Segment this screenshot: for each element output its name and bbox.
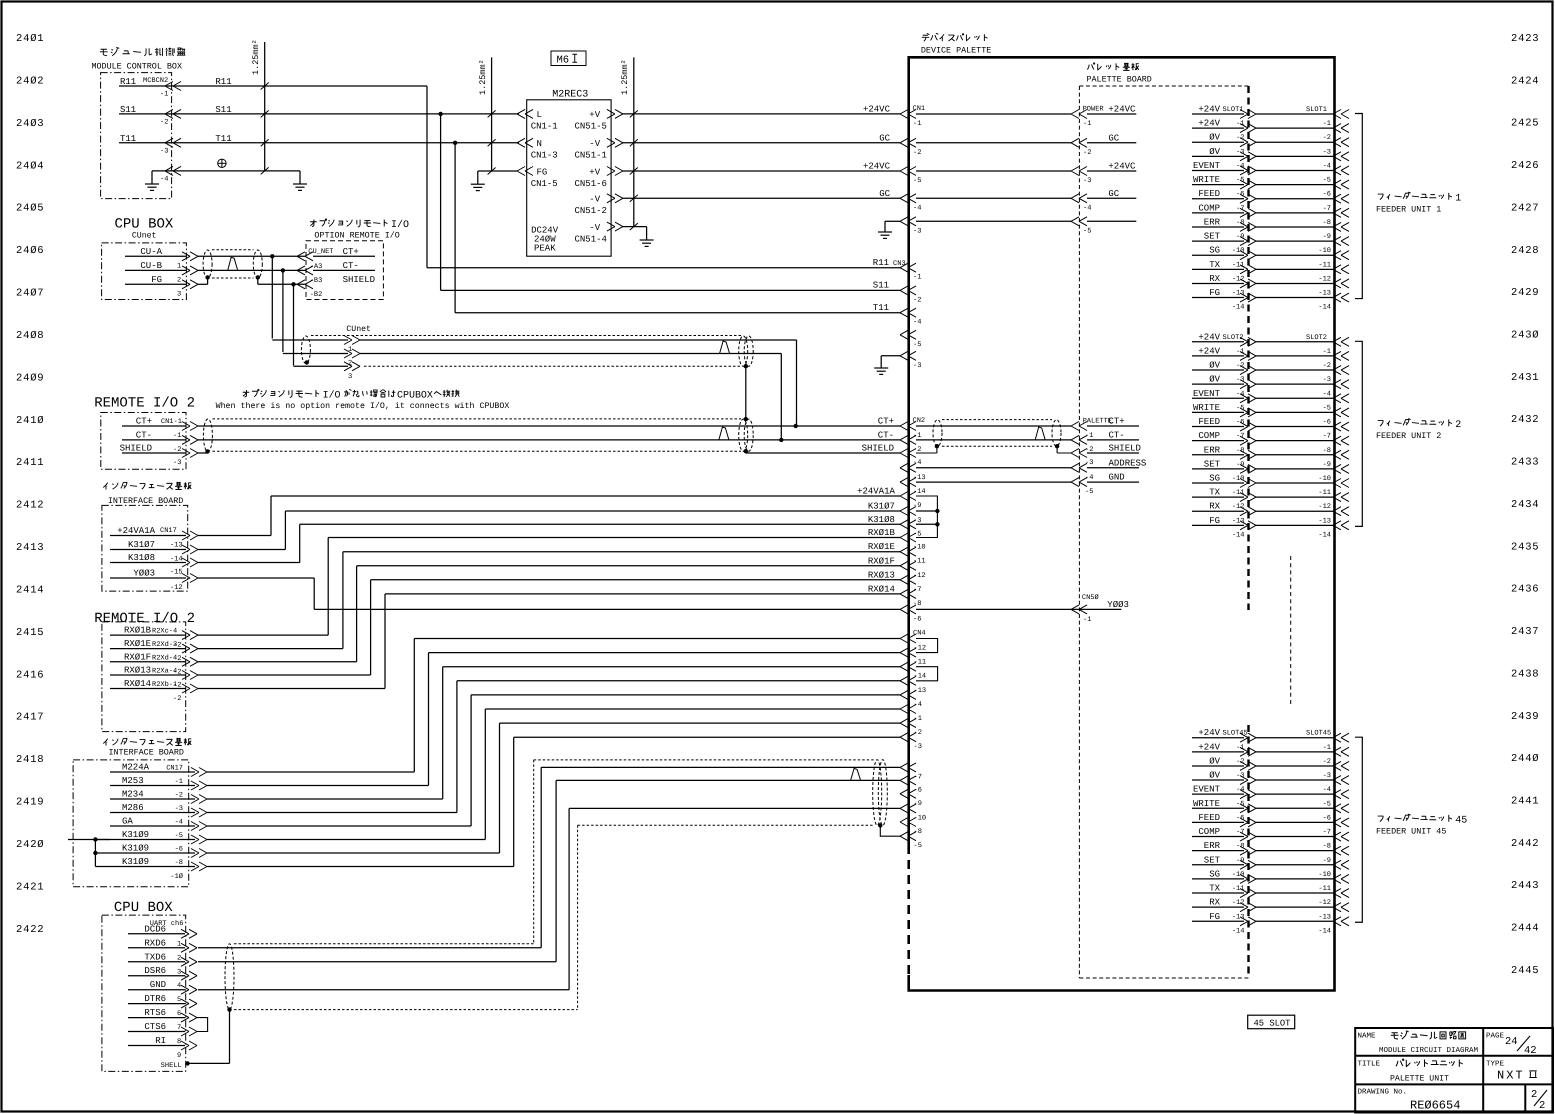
svg-text:SHIELD: SHIELD [1109, 444, 1141, 454]
svg-text:-11: -11 [1318, 261, 1331, 269]
svg-text:L: L [537, 110, 542, 120]
svg-text:INTERFACE BOARD: INTERFACE BOARD [109, 747, 184, 757]
svg-text:-5: -5 [913, 341, 921, 349]
svg-text:24Ø2: 24Ø2 [16, 75, 44, 87]
svg-text:-5: -5 [1323, 177, 1331, 185]
svg-text:RXØ1B: RXØ1B [124, 626, 152, 636]
svg-text:-2: -2 [913, 149, 921, 157]
svg-text:SG: SG [1209, 246, 1220, 256]
remote cable shield oval left [203, 419, 212, 452]
svg-text:-1: -1 [913, 432, 921, 440]
svg-text:2424: 2424 [1511, 75, 1539, 87]
wire shield to CN4-5 [880, 825, 900, 836]
svg-text:-3: -3 [914, 743, 922, 751]
svg-text:CU-A: CU-A [140, 247, 162, 257]
svg-text:24: 24 [1505, 1036, 1518, 1048]
connector SLOT2 right chevrons and pins [1306, 334, 1349, 540]
wire K3108 from board [110, 562, 186, 564]
svg-text:-4: -4 [1323, 390, 1331, 398]
svg-text:K31Ø9: K31Ø9 [122, 857, 149, 867]
svg-text:-1: -1 [914, 715, 922, 723]
feeder unit label SLOT45 [1378, 816, 1383, 822]
svg-text:TYPE: TYPE [1486, 1061, 1505, 1069]
uart cable sheath dotted inner [234, 1009, 578, 1011]
svg-text:-6: -6 [1323, 191, 1331, 199]
svg-text:+24V: +24V [1198, 346, 1220, 356]
ground at module control box right [299, 171, 301, 184]
svg-text:R2Xc-4: R2Xc-4 [152, 628, 177, 636]
svg-text:YØØ3: YØØ3 [1107, 600, 1129, 610]
svg-text:-11: -11 [1318, 885, 1331, 893]
svg-text:-2: -2 [1323, 134, 1331, 142]
svg-text:FG: FG [1209, 912, 1220, 922]
wire K31Ø9 vertical and to CN4 [513, 737, 515, 866]
svg-text:-11: -11 [1232, 489, 1245, 497]
45 SLOT label box [1248, 1015, 1295, 1028]
svg-text:SHIELD: SHIELD [343, 275, 375, 285]
CPU BOX CUnet pins [140, 247, 181, 298]
svg-text:3: 3 [177, 290, 181, 298]
svg-text:-3: -3 [175, 805, 183, 813]
wire GA vertical and to CN4 [470, 695, 472, 826]
connector CN3 labels [893, 260, 921, 370]
wire CT- to CN2-2 [198, 439, 900, 441]
backplane connector dashed line lower [1247, 725, 1249, 978]
wire M224A from board [110, 771, 195, 773]
svg-text:-11: -11 [914, 659, 927, 667]
feeder unit bracket SLOT45 [1355, 737, 1362, 922]
svg-text:244Ø: 244Ø [1511, 753, 1539, 765]
wire RXD6 to CN4-7 [198, 947, 541, 949]
interface board lower box [73, 760, 189, 887]
M2REC3 right pin +V CN51-5 [607, 109, 623, 118]
CUnet2 connector [344, 336, 360, 382]
svg-text:GND: GND [150, 980, 166, 990]
svg-text:K31Ø7: K31Ø7 [868, 502, 895, 512]
svg-text:24Ø9: 24Ø9 [16, 372, 44, 384]
cable spec 1.25mm2 line left of M2REC3 [491, 57, 493, 171]
wire M253 from board [110, 785, 195, 787]
svg-text:-14: -14 [1232, 927, 1245, 935]
svg-text:GND: GND [1109, 473, 1125, 483]
junction SHIELD drop [291, 282, 295, 286]
svg-text:-9: -9 [1323, 857, 1331, 865]
svg-text:2422: 2422 [16, 924, 44, 936]
svg-text:-11: -11 [1232, 885, 1245, 893]
svg-text:-7: -7 [1323, 433, 1331, 441]
shield vertical from CUnet2 cable to lower cable [745, 366, 747, 419]
svg-text:2415: 2415 [16, 627, 44, 639]
svg-text:-5: -5 [1085, 488, 1093, 496]
svg-text:DEVICE PALETTE: DEVICE PALETTE [921, 46, 991, 56]
svg-text:-10: -10 [1318, 247, 1331, 255]
junction CT+ drop [270, 254, 274, 258]
wire RXØ14 from board [110, 688, 186, 690]
svg-text:-2: -2 [1323, 362, 1331, 370]
uart cable shield ovals right [873, 760, 882, 826]
svg-text:-1Ø: -1Ø [170, 873, 183, 881]
svg-text:+24V: +24V [1198, 119, 1220, 129]
svg-text:-3: -3 [173, 459, 181, 467]
svg-text:RXØ14: RXØ14 [124, 679, 151, 689]
svg-text:CT+: CT+ [878, 417, 894, 427]
svg-text:8: 8 [177, 1038, 181, 1046]
svg-text:+24V: +24V [1198, 728, 1220, 738]
svg-text:RTS6: RTS6 [144, 1008, 166, 1018]
svg-text:SLOT45: SLOT45 [1223, 730, 1248, 738]
svg-text:2445: 2445 [1511, 965, 1539, 977]
svg-text:2426: 2426 [1511, 160, 1539, 172]
svg-text:-B2: -B2 [310, 291, 323, 299]
svg-text:COMP: COMP [1198, 827, 1220, 837]
svg-text:-1: -1 [1083, 120, 1091, 128]
svg-text:-14: -14 [1232, 304, 1245, 312]
svg-text:CN1-5: CN1-5 [531, 179, 558, 189]
svg-text:PAGE: PAGE [1486, 1032, 1505, 1041]
wire CN2-14 to PALETTE GND [916, 481, 1071, 483]
palette POWER stub wires and labels [1087, 105, 1136, 222]
svg-text:-7: -7 [1323, 205, 1331, 213]
wire T11 inside box [119, 142, 167, 144]
svg-text:2437: 2437 [1511, 626, 1539, 638]
svg-text:2432: 2432 [1511, 414, 1539, 426]
connector SLOT45 left stubs and labels [1192, 728, 1248, 935]
connector CN4 lower chevrons and pins [900, 763, 926, 850]
wire CUnet2-2 to vertical drop to CT- [360, 353, 781, 355]
svg-text:-12: -12 [170, 584, 183, 592]
connector SLOT2 crossing wires [1256, 342, 1333, 526]
svg-text:FG: FG [1209, 516, 1220, 526]
wire RXØ1B from board [110, 634, 186, 636]
svg-text:-15: -15 [170, 569, 183, 577]
svg-text:2436: 2436 [1511, 584, 1539, 596]
wire CU-B [125, 269, 186, 271]
svg-text:-5: -5 [1323, 800, 1331, 808]
svg-text:-5: -5 [913, 177, 921, 185]
svg-text:-2: -2 [914, 729, 922, 737]
svg-text:-13: -13 [1318, 913, 1331, 921]
svg-text:CN1-1: CN1-1 [531, 122, 558, 132]
CUnet cable shield ovals [203, 250, 212, 278]
palette PALETTE stub wires and labels [1087, 417, 1146, 483]
wire R11 vertical down to CN3 [426, 86, 428, 268]
svg-text:CPUBOX: CPUBOX [397, 389, 433, 400]
svg-text:2419: 2419 [16, 797, 44, 809]
svg-text:GC: GC [1108, 133, 1119, 143]
svg-text:INTERFACE BOARD: INTERFACE BOARD [108, 496, 183, 506]
svg-text:45 SLOT: 45 SLOT [1254, 1019, 1291, 1029]
svg-text:DCD6: DCD6 [144, 924, 166, 934]
wire M286 from board [110, 812, 195, 814]
svg-text:-4: -4 [1323, 786, 1331, 794]
svg-text:2434: 2434 [1511, 499, 1539, 511]
interface board lower pins [122, 763, 183, 882]
svg-text:-10: -10 [1318, 871, 1331, 879]
CN2-PALETTE cable shield right [1052, 420, 1061, 446]
connector SLOT1 crossing wires [1256, 114, 1333, 298]
svg-text:2442: 2442 [1511, 838, 1539, 850]
connector CN50 on palette board [1071, 594, 1129, 624]
connector CU_NET pins [308, 247, 375, 299]
svg-text:+24VC: +24VC [1108, 162, 1136, 172]
svg-text:-5: -5 [914, 842, 922, 850]
svg-text:2443: 2443 [1511, 880, 1539, 892]
svg-text:-11: -11 [1232, 261, 1245, 269]
svg-text:-6: -6 [914, 786, 922, 794]
svg-text:SHIELD: SHIELD [862, 444, 894, 454]
svg-text:1.25mm²: 1.25mm² [478, 59, 488, 95]
remote cable shield ovals right [739, 419, 748, 451]
svg-text:M224A: M224A [122, 763, 150, 773]
svg-text:45: 45 [1455, 816, 1467, 827]
svg-text:FEED: FEED [1198, 813, 1220, 823]
wire +24VC CN51-6 to CN1-5 [622, 170, 900, 172]
svg-text:-3: -3 [160, 148, 168, 156]
svg-text:FG: FG [151, 275, 162, 285]
wire Y003 vertical down and to CN50 [313, 578, 315, 609]
svg-text:+V: +V [589, 110, 600, 120]
svg-text:K31Ø9: K31Ø9 [122, 830, 149, 840]
wire K3108 vertical and to CN2 [299, 524, 301, 562]
svg-text:-6: -6 [913, 615, 921, 623]
earth symbol circle [218, 159, 226, 167]
svg-text:ERR: ERR [1204, 217, 1221, 227]
svg-text:-V: -V [589, 139, 600, 149]
wire TXD6 to CN4-6 [198, 961, 556, 963]
svg-text:-8: -8 [1323, 447, 1331, 455]
feeder unit bracket SLOT1 [1355, 114, 1362, 299]
svg-text:-14: -14 [1232, 531, 1245, 539]
device palette title [922, 33, 930, 41]
connector SLOT45 crossing wires [1256, 738, 1333, 922]
svg-text:242Ø: 242Ø [16, 839, 44, 851]
uart cable shield oval [225, 944, 234, 1010]
svg-text:-10: -10 [1232, 475, 1245, 483]
remote io2 lower pins [124, 626, 181, 703]
M2REC3 right pin -V CN51-4 [607, 222, 623, 231]
svg-text:TITLE: TITLE [1358, 1061, 1381, 1069]
wire RXØ1B vertical and to CN2 [327, 538, 329, 636]
svg-text:COMP: COMP [1198, 431, 1220, 441]
svg-text:+24V: +24V [1198, 105, 1220, 115]
wire CT- from remote box [122, 439, 186, 441]
svg-text:1: 1 [1455, 194, 1461, 205]
wire CN3-3 shield stub with ground [881, 355, 900, 357]
interface board upper pins [117, 526, 182, 592]
svg-text:-8: -8 [1323, 219, 1331, 227]
svg-text:24Ø3: 24Ø3 [16, 118, 44, 130]
wire CT+ to CN2-1 [198, 425, 900, 427]
wire K31Ø9 from board [95, 866, 195, 868]
wire option CT+ vertical [271, 256, 273, 338]
M2REC3 left pin L CN1-1 [517, 109, 533, 118]
palette board title [1087, 63, 1094, 70]
svg-text:NXT: NXT [1497, 1069, 1525, 1083]
uart pins [144, 924, 181, 1070]
svg-text:WRITE: WRITE [1193, 175, 1220, 185]
svg-text:-13: -13 [1232, 913, 1245, 921]
svg-text:2413: 2413 [16, 542, 44, 554]
svg-text:-10: -10 [913, 544, 926, 552]
svg-text:42: 42 [1524, 1045, 1537, 1057]
wire option CT- vertical [282, 270, 284, 352]
svg-text:24Ø7: 24Ø7 [16, 288, 44, 300]
svg-text:FG: FG [1209, 288, 1220, 298]
CN2-PALETTE cable sheath [942, 419, 1052, 421]
svg-text:CN1-3: CN1-3 [531, 151, 558, 161]
wire K31Ø9 from board [96, 839, 195, 841]
svg-text:DTR6: DTR6 [144, 994, 166, 1004]
svg-text:-12: -12 [1232, 275, 1245, 283]
svg-text:-3: -3 [913, 227, 921, 235]
wire SHIELD from cable to CN2-4 [745, 451, 747, 453]
wire M286 vertical and to CN4 [456, 681, 458, 813]
wire +24VC CN51-5 to CN1-1 [622, 113, 900, 115]
svg-text:24Ø1: 24Ø1 [16, 33, 44, 45]
M2REC3 right pin -V CN51-2 [607, 194, 623, 203]
svg-text:RXØ13: RXØ13 [124, 666, 151, 676]
svg-text:DSR6: DSR6 [144, 966, 166, 976]
svg-text:TX: TX [1209, 260, 1220, 270]
wire FG to cable shield [125, 283, 186, 285]
svg-text:241Ø: 241Ø [16, 415, 44, 427]
wire RXØ13 vertical and to CN2 [370, 580, 372, 675]
svg-text:SHELL: SHELL [161, 1062, 182, 1070]
twisted pair hump CUnet2 [720, 341, 730, 354]
wire CT+ option stub [313, 255, 375, 257]
uart cable sheath dotted outer [234, 943, 534, 945]
cable spec 1.25mm2 line right of M2REC3 [633, 57, 635, 226]
option remote io box outline [306, 241, 383, 300]
svg-text:PALETTE BOARD: PALETTE BOARD [1087, 75, 1152, 85]
twisted pair hump CU [228, 257, 238, 270]
svg-text:PEAK: PEAK [534, 244, 556, 254]
CUnet2 cable sheath dashes [311, 335, 741, 337]
svg-text:-4: -4 [175, 819, 183, 827]
svg-text:FEED: FEED [1198, 189, 1220, 199]
svg-text:I/O: I/O [323, 389, 341, 400]
wire K31Ø9 vertical and to CN4 [499, 723, 501, 853]
svg-text:CUnet: CUnet [132, 232, 157, 241]
svg-text:-1: -1 [173, 432, 181, 440]
CN2-PALETTE cable CT- [916, 439, 1071, 441]
twisted pair hump remote cable [719, 427, 729, 440]
svg-text:-1: -1 [1323, 120, 1331, 128]
svg-text:SLOT45: SLOT45 [1306, 730, 1331, 738]
M2REC3 right pin -V CN51-1 [607, 138, 623, 147]
wire option CT- to CUnet2-2 [283, 353, 348, 355]
svg-text:-6: -6 [1323, 419, 1331, 427]
remote io2 CN1 pins [120, 417, 182, 468]
svg-text:CT-: CT- [1109, 430, 1125, 440]
wire GC CN51-1 to CN1-2 [622, 142, 900, 144]
CN2-PALETTE cable CT+ [916, 425, 1071, 427]
svg-text:-9: -9 [913, 502, 921, 510]
CN2 signal labels [857, 487, 895, 595]
svg-text:9: 9 [177, 1052, 181, 1060]
svg-text:-12: -12 [1232, 899, 1245, 907]
cable spec 1.25mm2 line at R11/S11/T11 [264, 42, 266, 171]
right row numbers 2423-2445 [1511, 33, 1539, 977]
wire K31Ø9 vertical and to CN4 [484, 709, 486, 840]
connector SLOT45 right chevrons and pins [1306, 730, 1349, 936]
svg-text:REØ6654: REØ6654 [1410, 1099, 1460, 1113]
wire -V CN51-4 to ground [622, 226, 647, 228]
connector CU_NET chevrons [297, 252, 313, 289]
svg-text:2414: 2414 [16, 584, 44, 596]
svg-text:CTS6: CTS6 [144, 1022, 166, 1032]
svg-text:TX: TX [1209, 488, 1220, 498]
wire RXØ14 vertical and to CN2 [384, 594, 386, 689]
module control box MCBCN2 outline [101, 73, 172, 199]
twisted pair hump CN2 cable [1035, 427, 1045, 440]
CN4 shorting box pin -12 [916, 639, 938, 653]
svg-text:ØV: ØV [1209, 147, 1220, 157]
svg-text:-9: -9 [1323, 233, 1331, 241]
svg-text:M6: M6 [557, 55, 570, 67]
junction CT+ CUnet drop [794, 424, 798, 428]
svg-text:2417: 2417 [16, 712, 44, 724]
svg-text:FEEDER UNIT 1: FEEDER UNIT 1 [1376, 205, 1441, 215]
connector CN3 chevrons [900, 263, 916, 360]
svg-text:N: N [537, 139, 542, 149]
svg-text:+24V: +24V [1198, 742, 1220, 752]
svg-text:CT+: CT+ [343, 247, 359, 257]
svg-text:ØV: ØV [1209, 133, 1220, 143]
connector CN4 upper chevrons and pins [900, 634, 926, 751]
svg-text:K31Ø8: K31Ø8 [128, 553, 155, 563]
note japanese [243, 390, 250, 397]
svg-text:RXØ1E: RXØ1E [124, 639, 151, 649]
svg-text:FG: FG [537, 167, 548, 177]
wire Y003 from board [110, 577, 186, 579]
svg-text:RXØ1F: RXØ1F [868, 556, 895, 566]
svg-text:-5: -5 [1323, 404, 1331, 412]
svg-text:-3: -3 [1323, 376, 1331, 384]
svg-text:-V: -V [589, 195, 600, 205]
wire CN1-1 to POWER-1 [916, 113, 1071, 115]
svg-text:M2REC3: M2REC3 [552, 89, 588, 100]
svg-text:CT-: CT- [878, 430, 894, 440]
wire K3107 from board [110, 549, 186, 551]
svg-text:2423: 2423 [1511, 33, 1539, 45]
svg-text:CT-: CT- [136, 430, 152, 440]
svg-text:-7: -7 [914, 773, 922, 781]
svg-text:-4: -4 [913, 459, 921, 467]
svg-text:K31Ø7: K31Ø7 [128, 540, 155, 550]
svg-text:CN51-1: CN51-1 [575, 151, 607, 161]
svg-text:2441: 2441 [1511, 795, 1539, 807]
svg-text:-6: -6 [1323, 814, 1331, 822]
wire CN2-13 to PALETTE ADDRESS [916, 467, 1071, 469]
svg-text:ØV: ØV [1209, 771, 1220, 781]
wire CN1-3 ground stub to POWER-5 [916, 220, 1071, 222]
svg-text:-5: -5 [1083, 227, 1091, 235]
svg-text:ØV: ØV [1209, 756, 1220, 766]
svg-text:-10: -10 [914, 814, 927, 822]
left row numbers 2401-2422 [16, 33, 44, 936]
svg-text:WRITE: WRITE [1193, 403, 1220, 413]
svg-text:2411: 2411 [16, 457, 44, 469]
svg-text:CN3: CN3 [893, 260, 906, 268]
wire M253 vertical and to CN4 [428, 653, 430, 786]
svg-text:EVENT: EVENT [1193, 161, 1221, 171]
svg-text:GC: GC [879, 189, 890, 199]
svg-text:RX: RX [1209, 502, 1220, 512]
M2REC3 right pin +V CN51-6 [607, 167, 623, 176]
power supply M2REC3 outline [527, 100, 611, 256]
svg-text:R2Xd-4: R2Xd-4 [152, 653, 177, 662]
